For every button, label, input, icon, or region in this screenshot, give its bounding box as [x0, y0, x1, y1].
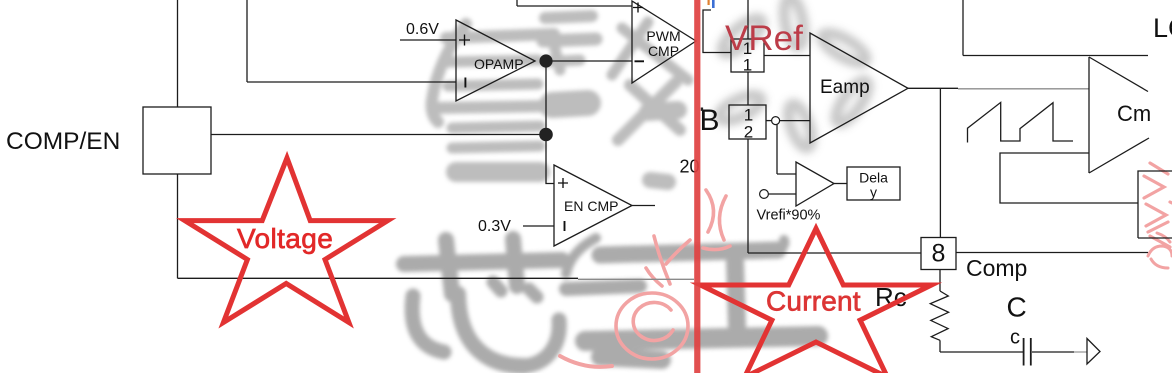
svg-text:c: c	[1010, 327, 1020, 349]
svg-text:LC: LC	[1153, 13, 1172, 43]
svg-text:CMP: CMP	[648, 43, 679, 59]
svg-text:Eamp: Eamp	[820, 77, 870, 98]
svg-text:Current: Current	[766, 286, 861, 317]
svg-text:VRef: VRef	[725, 19, 803, 58]
svg-text:Cm: Cm	[1117, 101, 1151, 126]
svg-text:COMP/EN: COMP/EN	[6, 128, 120, 155]
svg-text:C: C	[1007, 292, 1027, 323]
svg-text:0.3V: 0.3V	[478, 218, 511, 235]
svg-text:2: 2	[744, 123, 753, 142]
svg-text:Vrefi*90%: Vrefi*90%	[757, 207, 821, 223]
svg-text:Voltage: Voltage	[237, 223, 333, 254]
svg-text:0.6V: 0.6V	[406, 21, 439, 38]
svg-text:OPAMP: OPAMP	[474, 56, 524, 72]
svg-text:8: 8	[932, 240, 946, 268]
svg-text:EN CMP: EN CMP	[564, 198, 618, 214]
svg-text:y: y	[870, 184, 877, 200]
svg-text:PWM: PWM	[646, 28, 680, 44]
svg-text:Comp: Comp	[966, 255, 1027, 281]
svg-text:1: 1	[743, 56, 752, 75]
